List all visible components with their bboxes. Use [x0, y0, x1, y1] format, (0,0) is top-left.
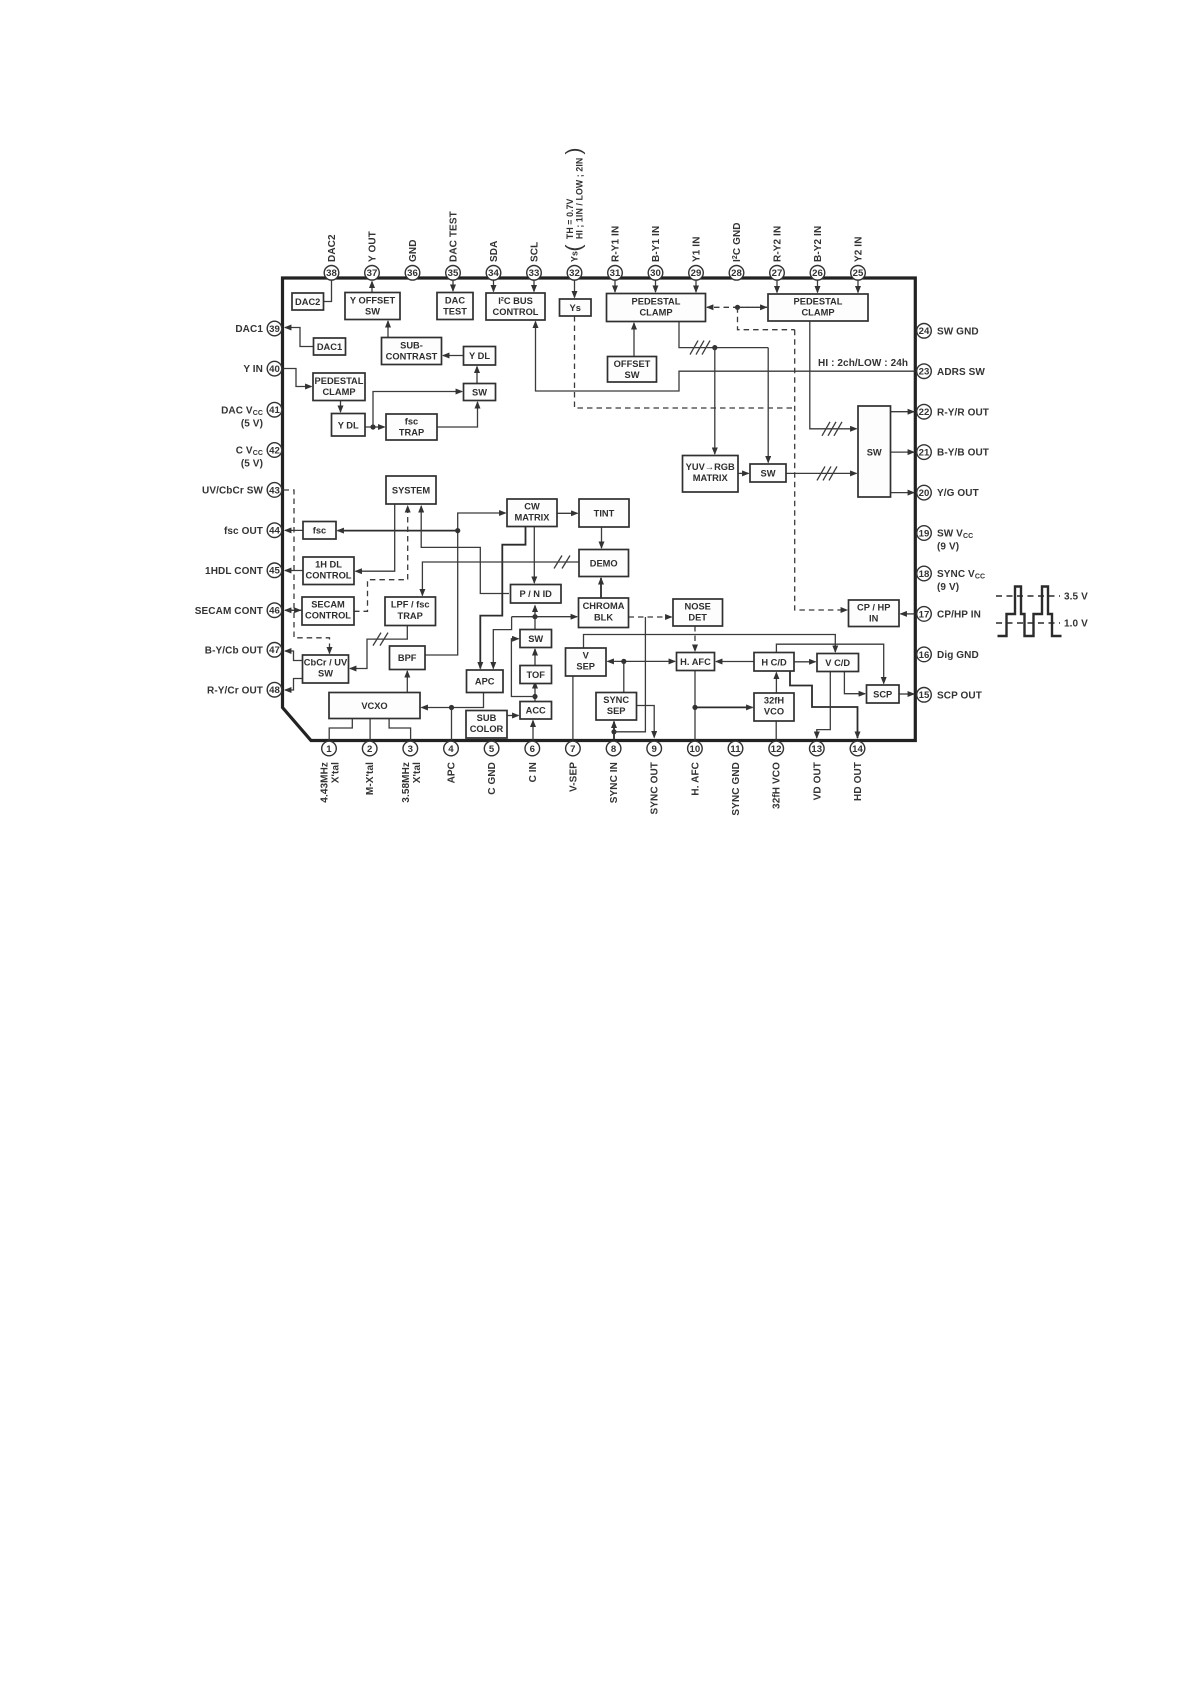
svg-text:39: 39	[269, 324, 280, 335]
svg-text:3: 3	[408, 744, 413, 755]
svg-text:CbCr / UV: CbCr / UV	[304, 658, 348, 668]
svg-text:SW: SW	[318, 669, 333, 679]
svg-text:B-Y/Cb OUT: B-Y/Cb OUT	[205, 645, 263, 656]
block CHROMA BLK	[579, 598, 629, 628]
wire SW to Y DL	[476, 367, 478, 384]
svg-text:32: 32	[569, 268, 580, 279]
wire pin23 ADRS SW to I2C BUS CONTROL	[536, 322, 915, 392]
svg-text:B-Y2 IN: B-Y2 IN	[813, 226, 824, 262]
pin 29	[689, 236, 704, 280]
svg-text:4.43MHz: 4.43MHz	[320, 762, 331, 803]
wire CW MATRIX to TINT	[557, 512, 578, 514]
svg-text:5: 5	[489, 744, 495, 755]
wire APC to VCXO and pin4	[422, 693, 484, 708]
svg-text:VD OUT: VD OUT	[812, 762, 823, 800]
wire dashed vertical to CP/HP IN	[795, 330, 847, 610]
wire BPF up to fsc node and CW MATRIX	[425, 513, 506, 655]
wire VCXO to pin1	[329, 719, 352, 741]
svg-text:26: 26	[812, 268, 823, 279]
node below TOF	[532, 694, 537, 699]
pin 13	[810, 741, 825, 800]
wire 32fH VCO to pin12	[775, 721, 777, 740]
block I2C BUS CONTROL	[486, 293, 545, 320]
svg-text:18: 18	[919, 569, 930, 580]
svg-text:fsc: fsc	[405, 417, 418, 427]
pin 31	[608, 226, 623, 280]
pin 1	[320, 741, 342, 803]
wire SUB COLOR to ACC	[507, 715, 519, 717]
svg-text:3.58MHz: 3.58MHz	[401, 762, 412, 803]
wire fsc TRAP to SW	[437, 402, 478, 427]
svg-text:DET: DET	[688, 613, 707, 623]
svg-text:20: 20	[919, 488, 930, 499]
svg-text:SCP OUT: SCP OUT	[937, 690, 982, 701]
pin 12	[769, 741, 784, 809]
svg-text:SDA: SDA	[489, 241, 500, 262]
svg-text:47: 47	[269, 645, 280, 656]
block YUV-RGB MATRIX	[683, 456, 739, 493]
svg-text:C IN: C IN	[528, 762, 539, 782]
block NOSE DET	[673, 599, 723, 626]
wire Y DL to fsc TRAP	[365, 426, 385, 428]
svg-text:41: 41	[269, 405, 280, 416]
svg-text:SW: SW	[528, 634, 543, 644]
svg-text:34: 34	[488, 268, 499, 279]
wire pin35 DAC TEST to DAC TEST box	[452, 280, 454, 292]
svg-text:32fH VCO: 32fH VCO	[772, 762, 783, 809]
wire 32fH VCO to H C/D	[775, 673, 777, 694]
wire node to pin4 APC	[451, 708, 453, 741]
svg-text:M-X'tal: M-X'tal	[365, 762, 376, 795]
svg-text:SUB-: SUB-	[400, 341, 423, 351]
wire pin8 loop up to noise det line	[614, 617, 645, 732]
wire node loop to SW input	[511, 639, 535, 697]
svg-text:SW GND: SW GND	[937, 326, 979, 337]
pin 36	[405, 239, 420, 280]
svg-text:R-Y/Cr OUT: R-Y/Cr OUT	[207, 685, 263, 696]
pin 41	[221, 402, 282, 429]
pin 2	[362, 741, 377, 795]
svg-text:TINT: TINT	[594, 509, 615, 519]
svg-text:H. AFC: H. AFC	[680, 657, 711, 667]
svg-text:PEDESTAL: PEDESTAL	[794, 297, 843, 307]
wire pin38 to DAC2	[324, 280, 332, 302]
svg-text:V C/D: V C/D	[825, 658, 850, 668]
svg-text:46: 46	[269, 606, 280, 617]
wire tall SW to pin21 B-Y/B OUT	[891, 451, 915, 453]
svg-text:UV/CbCr SW: UV/CbCr SW	[202, 486, 263, 497]
pin 48	[207, 682, 282, 697]
svg-text:MATRIX: MATRIX	[515, 513, 551, 523]
svg-text:BLK: BLK	[594, 613, 613, 623]
wire P/N ID to SYSTEM	[421, 506, 509, 594]
pin 28	[729, 222, 744, 280]
wire dashed from clamp link down	[738, 307, 795, 329]
wire tall SW to pin20 Y/G OUT	[891, 492, 915, 494]
svg-text:R-Y1 IN: R-Y1 IN	[611, 226, 622, 262]
svg-text:PEDESTAL: PEDESTAL	[632, 297, 681, 307]
svg-text:4: 4	[448, 744, 454, 755]
svg-text:37: 37	[367, 268, 378, 279]
svg-text:B-Y1 IN: B-Y1 IN	[651, 226, 662, 262]
block SUB COLOR	[466, 711, 507, 739]
hash marks clamp2 line	[822, 422, 842, 436]
svg-text:H C/D: H C/D	[761, 658, 787, 668]
wire SCP to pin15 SCP OUT	[899, 693, 914, 695]
svg-text:CW: CW	[524, 502, 540, 512]
svg-text:SW: SW	[625, 370, 640, 380]
svg-text:16: 16	[919, 650, 930, 661]
wire H AFC to pin10	[694, 671, 696, 741]
wire SYSTEM to 1H DL CONTROL	[356, 504, 395, 571]
svg-text:fsc: fsc	[313, 526, 326, 536]
svg-text:28: 28	[731, 268, 742, 279]
wire YUV matrix to SW	[738, 472, 749, 474]
block SW below YUV	[750, 464, 786, 482]
wire tall SW to pin22 R-Y/R OUT	[891, 411, 915, 413]
wire Y DL to SUB-CONTRAST	[443, 355, 464, 357]
svg-text:MATRIX: MATRIX	[693, 473, 729, 483]
svg-text:12: 12	[771, 744, 782, 755]
svg-text:1: 1	[326, 744, 332, 755]
pin 45	[205, 563, 282, 578]
svg-text:R-Y/R OUT: R-Y/R OUT	[937, 407, 989, 418]
block SECAM CONTROL	[302, 597, 354, 625]
block H C/D	[754, 653, 794, 672]
node fsc distribution	[455, 528, 460, 533]
svg-text:(: (	[563, 244, 586, 251]
wire chroma node to CHROMA BLK	[512, 616, 577, 618]
wire fsc box to pin44 fsc OUT	[285, 529, 303, 531]
pin 9	[647, 741, 662, 814]
wire H C/D to pin14 HD OUT	[790, 671, 858, 738]
svg-text:APC: APC	[447, 762, 458, 783]
svg-text:SYNC: SYNC	[603, 695, 629, 705]
svg-text:CP/HP IN: CP/HP IN	[937, 610, 981, 621]
svg-text:ADRS SW: ADRS SW	[937, 367, 985, 378]
pin 21	[917, 445, 989, 460]
svg-text:6: 6	[530, 744, 535, 755]
svg-text:3.5 V: 3.5 V	[1064, 592, 1088, 603]
block 1H DL CONTROL	[303, 557, 354, 585]
svg-text:CLAMP: CLAMP	[639, 308, 672, 318]
svg-text:SECAM CONT: SECAM CONT	[195, 606, 263, 617]
svg-text:SEP: SEP	[576, 662, 595, 672]
wire SW up to chroma node	[534, 617, 536, 630]
svg-text:SUB: SUB	[477, 713, 497, 723]
block DAC TEST	[437, 293, 473, 320]
wire node branch to APC	[493, 617, 511, 669]
svg-text:OFFSET: OFFSET	[614, 359, 651, 369]
wire SYNC SEP to pin9 SYNC OUT	[637, 706, 655, 738]
wire dashed CHROMA BLK to NOSE DET	[629, 616, 672, 618]
svg-text:27: 27	[772, 268, 783, 279]
wire VCXO to pin3	[389, 719, 411, 741]
svg-text:H. AFC: H. AFC	[690, 762, 701, 796]
block tall SW	[858, 406, 891, 497]
block ACC	[520, 702, 552, 720]
wire dashed NOSE DET to H AFC	[694, 626, 696, 651]
wire node to SW	[373, 392, 462, 428]
svg-text:(5 V): (5 V)	[241, 459, 263, 470]
svg-text:19: 19	[919, 528, 930, 539]
svg-text:10: 10	[689, 744, 700, 755]
svg-text:Ys: Ys	[570, 251, 580, 262]
wire dashed Ys control	[575, 316, 795, 408]
IC chip outline (48-pin package)	[283, 278, 916, 741]
svg-text:SYNC OUT: SYNC OUT	[650, 762, 661, 814]
wire PEDESTAL CLAMP to Y DL	[340, 401, 342, 413]
wire V SEP to V C/D	[584, 635, 836, 653]
wire V C/D to SCP	[844, 672, 865, 694]
wire VCXO to pin2	[369, 719, 371, 741]
wire dashed pin43 UV/CbCr SW control	[284, 490, 330, 654]
svg-text:DAC TEST: DAC TEST	[449, 211, 460, 262]
node chroma distribution	[532, 614, 537, 619]
wire pin34 SDA to I2C BUS CONTROL	[493, 280, 495, 292]
svg-text:C GND: C GND	[487, 762, 498, 795]
svg-text:TEST: TEST	[443, 307, 467, 317]
svg-text:48: 48	[269, 685, 280, 696]
svg-text:Y DL: Y DL	[469, 351, 490, 361]
svg-text:40: 40	[269, 364, 280, 375]
wire dashed SECAM CONTROL to SYSTEM	[354, 506, 408, 611]
pin 47	[205, 643, 282, 658]
wire CW MATRIX to APC	[480, 527, 525, 669]
pin 23	[917, 364, 986, 379]
hash marks clamp1 bus	[690, 341, 710, 355]
block DAC1	[314, 338, 346, 355]
pin 17	[917, 607, 981, 622]
svg-text:DAC2: DAC2	[327, 234, 338, 262]
svg-text:DAC2: DAC2	[295, 297, 320, 307]
pin 6	[525, 741, 540, 782]
block SW upper	[464, 384, 496, 401]
wire node to P/N ID	[534, 606, 536, 617]
block SW middle	[520, 630, 552, 648]
svg-text:7: 7	[570, 744, 575, 755]
svg-text:B-Y/B OUT: B-Y/B OUT	[937, 448, 989, 459]
svg-text:SECAM: SECAM	[311, 600, 345, 610]
svg-text:21: 21	[919, 448, 930, 459]
pin 24	[917, 324, 979, 339]
wire CW MATRIX to P/N ID	[533, 527, 535, 584]
wire CHROMA BLK to DEMO	[600, 578, 602, 598]
node on clamp dashed link	[735, 305, 740, 310]
hash marks demo bus	[554, 556, 570, 569]
node APC loop	[449, 705, 454, 710]
pin 14	[850, 741, 865, 801]
block DEMO	[579, 550, 629, 577]
svg-text:TOF: TOF	[526, 670, 545, 680]
wire pin6 C IN to ACC	[532, 721, 534, 741]
svg-text:YUV→RGB: YUV→RGB	[686, 462, 735, 472]
svg-text:1HDL CONT: 1HDL CONT	[205, 566, 263, 577]
wire DEMO to LPF/fsc TRAP	[422, 562, 579, 596]
svg-text:23: 23	[919, 367, 930, 378]
svg-text:SCL: SCL	[530, 242, 541, 262]
svg-text:13: 13	[811, 744, 822, 755]
svg-text:35: 35	[448, 268, 459, 279]
pin 38	[324, 234, 339, 280]
svg-text:CLAMP: CLAMP	[801, 308, 834, 318]
wire pin32 to Ys box	[574, 280, 576, 298]
block CbCr/UV SW	[303, 655, 349, 683]
wire pin8 SYNC IN to SYNC SEP	[613, 722, 615, 732]
svg-text:V-SEP: V-SEP	[568, 762, 579, 792]
svg-text:fsc OUT: fsc OUT	[224, 526, 263, 537]
wire CbCr/UV SW to pin47 B-Y/Cb OUT	[285, 651, 303, 661]
wire bus to SW below YUV	[767, 348, 769, 463]
pin 42	[236, 443, 282, 470]
block SUB-CONTRAST	[382, 338, 442, 365]
svg-text:Dig GND: Dig GND	[937, 650, 979, 661]
svg-text:CLAMP: CLAMP	[322, 387, 355, 397]
wire pin17 to CP/HP IN	[901, 613, 915, 615]
svg-text:X'tal: X'tal	[412, 762, 423, 783]
wire pin33 SCL to I2C BUS CONTROL	[533, 280, 535, 292]
block PEDESTAL CLAMP 1	[607, 294, 706, 322]
svg-text:(9 V): (9 V)	[937, 582, 959, 593]
svg-text:Y2 IN: Y2 IN	[854, 236, 865, 262]
svg-text:24: 24	[919, 326, 930, 337]
wire pin45 1HDL CONT	[285, 570, 303, 572]
block SYSTEM	[386, 476, 436, 504]
svg-text:Y/G OUT: Y/G OUT	[937, 488, 979, 499]
svg-text:38: 38	[326, 268, 337, 279]
svg-text:44: 44	[269, 526, 280, 537]
block SYNC SEP	[596, 693, 637, 721]
svg-text:11: 11	[730, 744, 741, 755]
svg-text:PEDESTAL: PEDESTAL	[315, 376, 364, 386]
block TINT	[579, 499, 629, 527]
block P/N ID	[511, 585, 562, 604]
wire V C/D to pin13 VD OUT	[817, 672, 831, 739]
svg-text:45: 45	[269, 566, 280, 577]
svg-text:(9 V): (9 V)	[937, 542, 959, 553]
block fsc TRAP	[386, 414, 437, 440]
pin 7	[566, 741, 581, 792]
svg-text:): )	[563, 148, 586, 155]
svg-text:Y1 IN: Y1 IN	[692, 236, 703, 262]
wire sync distribution V SEP / H AFC	[608, 660, 676, 662]
svg-text:8: 8	[611, 744, 617, 755]
svg-text:HD OUT: HD OUT	[853, 762, 864, 801]
svg-text:P / N ID: P / N ID	[520, 589, 553, 599]
svg-text:2: 2	[367, 744, 372, 755]
svg-text:CONTRAST: CONTRAST	[386, 352, 438, 362]
svg-text:SYNC IN: SYNC IN	[609, 762, 620, 803]
block CP/HP IN	[849, 600, 900, 627]
pin 39	[235, 321, 281, 336]
svg-text:BPF: BPF	[398, 653, 417, 663]
wire pin46 SECAM CONT	[285, 609, 302, 611]
svg-text:SW: SW	[761, 469, 776, 479]
block VCXO	[329, 693, 420, 719]
wire H C/D to H AFC	[716, 661, 754, 663]
pin 27	[770, 226, 785, 280]
svg-text:15: 15	[919, 690, 930, 701]
pin 16	[917, 647, 979, 662]
pin 35	[446, 211, 461, 280]
pin 40	[243, 361, 281, 376]
wire pin29 Y1 IN to PEDESTAL CLAMP	[695, 280, 697, 293]
pin 30	[648, 226, 663, 280]
pin 32 label Ys	[563, 148, 586, 262]
block V SEP	[566, 648, 607, 676]
svg-text:SYSTEM: SYSTEM	[392, 486, 430, 496]
svg-text:TRAP: TRAP	[399, 428, 424, 438]
node pin10 line	[692, 705, 697, 710]
wire pin27 R-Y2 IN to PEDESTAL CLAMP	[776, 280, 778, 293]
svg-text:42: 42	[269, 445, 280, 456]
wire dashed link between pedestal clamps	[707, 306, 767, 308]
wire H C/D to SCP	[776, 644, 883, 683]
wire pin30 B-Y1 IN to PEDESTAL CLAMP	[655, 280, 657, 293]
pin 46	[195, 603, 282, 618]
pin 22	[917, 404, 989, 419]
wire DAC1 to pin39	[285, 328, 314, 347]
svg-text:ACC: ACC	[526, 706, 546, 716]
wire TOF to SW	[534, 649, 536, 666]
svg-text:GND: GND	[408, 239, 419, 262]
node on clamp1 bus	[712, 345, 717, 350]
wire node to 32fH VCO	[695, 706, 753, 708]
wire pin7 V-SEP to V SEP	[572, 676, 574, 740]
svg-text:Y OUT: Y OUT	[368, 231, 379, 262]
svg-text:Y OFFSET: Y OFFSET	[350, 296, 396, 306]
svg-text:31: 31	[610, 268, 621, 279]
pin 3	[401, 741, 423, 803]
svg-text:SCP: SCP	[873, 690, 892, 700]
svg-text:DAC1: DAC1	[235, 324, 263, 335]
wire OFFSET SW to PEDESTAL CLAMP	[633, 323, 635, 357]
svg-text:HI : 2ch/LOW : 24h: HI : 2ch/LOW : 24h	[818, 358, 908, 369]
svg-text:Ys: Ys	[570, 303, 581, 313]
wire TINT to DEMO	[601, 527, 603, 548]
pin 11	[728, 741, 743, 815]
wire VCXO to BPF	[406, 671, 408, 693]
block Y DL lower	[332, 414, 366, 437]
pin 26	[810, 226, 825, 280]
pin 19	[917, 526, 974, 553]
svg-text:17: 17	[919, 609, 930, 620]
svg-text:29: 29	[691, 268, 702, 279]
svg-text:CHROMA: CHROMA	[583, 601, 625, 611]
svg-text:CONTROL: CONTROL	[305, 611, 351, 621]
node on Y DL output	[370, 424, 375, 429]
wire LPF/fsc TRAP to CbCr/UV SW	[350, 626, 407, 669]
block H AFC	[677, 653, 715, 671]
wire CbCr/UV SW to pin48 R-Y/Cr OUT	[285, 679, 303, 691]
wire node to YUV matrix	[714, 348, 716, 454]
block Y OFFSET SW	[345, 293, 400, 320]
svg-text:DAC: DAC	[445, 296, 465, 306]
svg-text:30: 30	[650, 268, 661, 279]
block CW MATRIX	[507, 499, 557, 527]
svg-text:32fH: 32fH	[764, 696, 784, 706]
wire ACC to TOF node	[534, 682, 536, 702]
pin 4	[444, 741, 459, 783]
wire SUB-CONTRAST to Y OFFSET SW	[387, 321, 389, 338]
wire fsc node to fsc box	[338, 530, 458, 532]
svg-text:DAC1: DAC1	[317, 342, 342, 352]
svg-text:SEP: SEP	[607, 706, 626, 716]
svg-text:SYNC GND: SYNC GND	[731, 762, 742, 816]
wire node to SYNC SEP	[623, 661, 625, 692]
svg-text:VCO: VCO	[764, 707, 784, 717]
svg-text:9: 9	[651, 744, 656, 755]
